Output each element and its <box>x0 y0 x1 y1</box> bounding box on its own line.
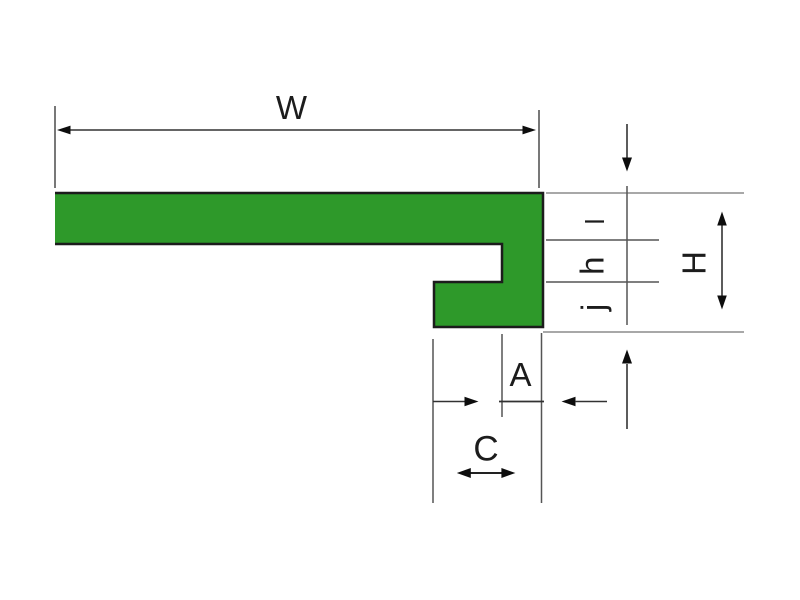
down arrow above grid <box>626 124 628 158</box>
top boundary line of section grid <box>546 192 744 194</box>
svg-text:A: A <box>509 356 531 393</box>
l/h divider line <box>546 239 659 241</box>
svg-text:h: h <box>574 257 611 275</box>
W dimension line <box>68 129 525 131</box>
profile body (green J-trim cross-section) <box>55 193 543 327</box>
svg-text:W: W <box>276 89 308 126</box>
W left extension line <box>54 106 56 188</box>
svg-text:C: C <box>473 430 498 469</box>
svg-text:H: H <box>676 251 713 275</box>
vertical grid line <box>626 186 628 325</box>
A dimension tick segment <box>499 401 544 403</box>
C double arrow <box>469 472 503 474</box>
svg-text:j: j <box>574 304 611 312</box>
A right-pointing arrow <box>433 401 466 403</box>
bottom middle vertical extension line <box>501 334 503 417</box>
bottom boundary line of section grid <box>543 331 744 333</box>
h/j divider line <box>546 281 659 283</box>
bottom right vertical extension line <box>541 333 543 503</box>
up arrow below grid <box>626 364 628 429</box>
A left-pointing arrow <box>562 397 576 406</box>
W right extension line <box>538 110 540 188</box>
H dimension double arrow <box>721 224 723 296</box>
bottom left vertical extension line <box>432 339 434 503</box>
W right arrowhead <box>523 126 537 135</box>
profile outline <box>55 193 543 327</box>
W left arrowhead <box>57 126 71 135</box>
svg-text:l: l <box>580 219 610 225</box>
